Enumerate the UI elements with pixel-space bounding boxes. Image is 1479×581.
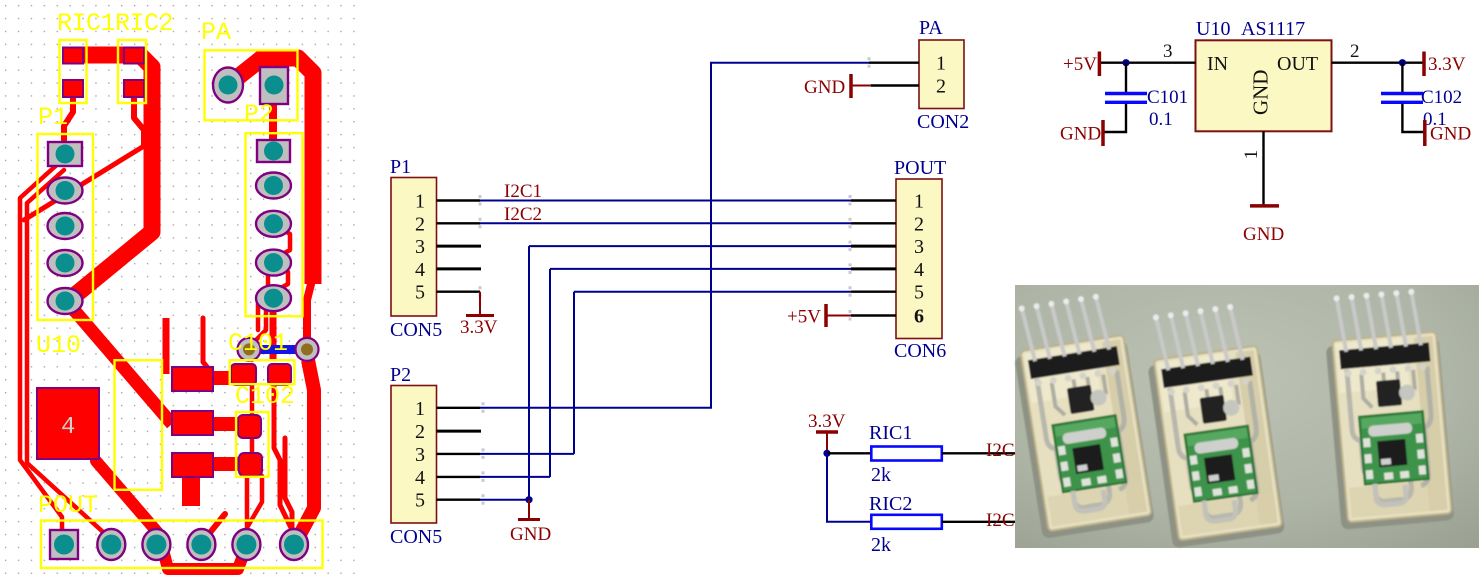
wire: RIC1 to net I2C1 bbox=[942, 452, 1016, 454]
svg-text:GND: GND bbox=[1249, 70, 1273, 116]
power symbol 3.3V (U10 output) bbox=[1422, 52, 1426, 77]
pin stub PA.2 bbox=[871, 84, 919, 86]
svg-text:1: 1 bbox=[415, 191, 425, 213]
junction: OUT node bbox=[1399, 59, 1406, 66]
ground symbol GND (U10 pin1) bbox=[1250, 204, 1279, 208]
svg-text:C101: C101 bbox=[1147, 87, 1188, 108]
svg-text:PA: PA bbox=[201, 18, 231, 47]
capacitor C101 smd pads bbox=[231, 364, 256, 385]
svg-text:GND: GND bbox=[1243, 224, 1284, 245]
ground symbol GND (C102) bbox=[1423, 120, 1427, 146]
capacitor C102 bbox=[1381, 63, 1462, 132]
wire: U10 pin1 GND down bbox=[1262, 131, 1264, 206]
bottom-layer trace between C101 vias bbox=[238, 345, 318, 354]
wire: U10 smd pad C to C102 bottom pad bbox=[210, 457, 243, 471]
wire: vertical riser P2.3 to POUT.5 bbox=[573, 292, 575, 454]
svg-text:RIC1RIC2: RIC1RIC2 bbox=[57, 9, 173, 38]
svg-text:GND: GND bbox=[510, 524, 551, 545]
power symbol +5V (U10 input) bbox=[1098, 52, 1102, 77]
wire: C102 right trace down bbox=[285, 438, 292, 532]
connector P1 pad 5 bbox=[48, 288, 83, 314]
pin stub P2.4 bbox=[437, 476, 481, 478]
U10 smd pad right 2 bbox=[172, 411, 213, 435]
pin stub P1.3 bbox=[437, 245, 482, 248]
svg-text:CON6: CON6 bbox=[894, 340, 946, 362]
svg-text:GND: GND bbox=[1060, 124, 1101, 145]
wire: U10 smd pad A to C101 left pad bbox=[210, 371, 240, 385]
wire: smd pad C stem down bbox=[182, 477, 200, 506]
ground symbol GND at PA.2 bbox=[851, 74, 871, 98]
svg-text:3.3V: 3.3V bbox=[460, 317, 498, 338]
wire: P2.3 to riser bbox=[480, 453, 574, 455]
wire: left twin rail B (to POUT pad2) bbox=[27, 170, 103, 532]
wire: C101 bottom plate to GND bbox=[1103, 104, 1126, 132]
C101 plates bbox=[1105, 92, 1147, 95]
photo module 2 bbox=[1141, 301, 1285, 548]
pin stub P2.3 bbox=[437, 453, 481, 455]
svg-text:2: 2 bbox=[415, 213, 425, 235]
connector P1 pad 1 (square) bbox=[48, 142, 82, 166]
svg-text:1: 1 bbox=[1241, 150, 1262, 160]
wire: U10 pin3 IN bbox=[1126, 62, 1196, 64]
wire: U10 smd pad B to C102 top pad bbox=[210, 417, 242, 431]
wire: thick trace RIC1 pad to vertical rail and down to P1 pad5 bbox=[68, 55, 152, 301]
connector P2 pad 1 (square) bbox=[257, 140, 290, 162]
connector POUT pad 2 bbox=[97, 529, 125, 560]
connector POUT pad 1 (square) bbox=[50, 530, 78, 559]
connector POUT pad 6 bbox=[280, 529, 308, 560]
svg-text:CON5: CON5 bbox=[390, 526, 442, 548]
op-amp U10 AS1117 body bbox=[1196, 18, 1332, 131]
wire: P2.5 to riser bbox=[480, 499, 529, 501]
junction: P2.5 / GND node bbox=[525, 496, 532, 503]
outline POUT bbox=[41, 521, 323, 569]
connector P1 pad 4 bbox=[48, 250, 83, 276]
power symbol 3.3V (pull-ups) bbox=[808, 411, 846, 453]
svg-text:5: 5 bbox=[914, 282, 924, 304]
svg-text:RIC1: RIC1 bbox=[869, 422, 912, 444]
wire: narrow pair below P2 bbox=[203, 318, 213, 374]
junction: 3.3V node bbox=[823, 450, 830, 457]
pin stub P1.5 bbox=[437, 291, 481, 293]
pin stub P1.1 bbox=[437, 199, 481, 201]
wire: junction to 3.3V bar bbox=[1402, 62, 1424, 64]
photo module 1 bbox=[1006, 290, 1154, 539]
pin stub P2.1 bbox=[437, 407, 481, 409]
wire: PA square pad down to P2 pad1 bbox=[269, 100, 277, 145]
connector P2 pad 3 bbox=[256, 211, 291, 237]
wire: C102 bottom plate to GND bbox=[1402, 104, 1424, 132]
outline P2 bbox=[246, 133, 303, 316]
wire: right rail narrowing to C101 via bbox=[307, 280, 312, 349]
wire: POUT.4 horizontal to vertical riser bbox=[550, 268, 851, 270]
svg-text:4: 4 bbox=[415, 259, 425, 281]
pin stub P2.2 bbox=[437, 430, 482, 433]
svg-text:2k: 2k bbox=[871, 534, 891, 556]
svg-text:2: 2 bbox=[415, 421, 425, 443]
outline RIC1 bbox=[60, 40, 87, 103]
wire: P2.4 to riser bbox=[480, 476, 550, 478]
svg-text:U10: U10 bbox=[36, 331, 81, 360]
svg-text:P2: P2 bbox=[244, 100, 274, 129]
ground symbol GND at P2.5 node bbox=[518, 500, 540, 520]
svg-text:3: 3 bbox=[1163, 41, 1173, 62]
wire: trace RIC1 bottom pad down to P1 pad1 bbox=[64, 90, 73, 150]
wire: P1.1 to POUT.1 net I2C1 (blue) bbox=[480, 200, 851, 202]
C102 plates bbox=[1381, 92, 1423, 95]
connector P2 pad 2 bbox=[256, 173, 291, 199]
connector P2 (CON5) bbox=[390, 364, 481, 548]
connector POUT pad 4 bbox=[187, 529, 215, 560]
outline P1 bbox=[38, 134, 94, 320]
svg-text:POUT: POUT bbox=[894, 157, 946, 179]
wire: RIC2 to net I2C2 bbox=[942, 521, 1016, 523]
pin stub P1.2 bbox=[437, 222, 481, 224]
svg-text:GND: GND bbox=[804, 77, 845, 98]
resistor RIC2 smd pads bbox=[124, 48, 144, 64]
svg-text:P1: P1 bbox=[38, 103, 68, 132]
wire: long diagonal RIC2 to left rail bbox=[24, 146, 144, 220]
wire: C102 bottom to POUT pad5 bbox=[248, 476, 262, 526]
svg-text:4: 4 bbox=[914, 259, 924, 281]
svg-text:1: 1 bbox=[914, 191, 924, 213]
svg-text:P1: P1 bbox=[390, 156, 411, 178]
svg-text:4: 4 bbox=[61, 414, 75, 441]
wire: PA thick trace from round pad over to right rail bbox=[228, 58, 313, 284]
pin stub POUT.5 bbox=[851, 291, 896, 293]
svg-text:CON2: CON2 bbox=[917, 111, 969, 133]
wire: P2 pad3 snake down bbox=[258, 224, 290, 330]
outline PA bbox=[205, 50, 298, 120]
svg-text:4: 4 bbox=[415, 467, 425, 489]
U10 smd pad right 3 bbox=[172, 453, 213, 477]
svg-text:1: 1 bbox=[936, 53, 946, 75]
svg-text:U10: U10 bbox=[1196, 18, 1230, 40]
svg-text:I2C2: I2C2 bbox=[504, 204, 542, 225]
svg-text:3.3V: 3.3V bbox=[808, 411, 846, 432]
wire: P2 pad5 down to C102 region bbox=[270, 298, 277, 360]
capacitor C101 bbox=[1103, 63, 1188, 132]
outline C101 bbox=[230, 360, 295, 384]
svg-text:3: 3 bbox=[914, 236, 924, 258]
svg-text:I2C1: I2C1 bbox=[504, 181, 542, 202]
wire: P1.2 to POUT.2 net I2C2 (blue) bbox=[480, 222, 851, 224]
wire: junction down to C101 top plate bbox=[1125, 63, 1127, 92]
U10 smd pad right 1 bbox=[172, 367, 213, 391]
ground symbol GND (C101) bbox=[1101, 120, 1105, 146]
wire: trace near U10 outline down bbox=[163, 318, 170, 374]
wire: vertical riser P2.4 to POUT.4 bbox=[549, 269, 551, 477]
svg-text:PA: PA bbox=[919, 17, 943, 39]
pin stub POUT.3 bbox=[851, 245, 896, 248]
wire: P2.1 to PA.1 long route bbox=[480, 63, 869, 408]
wire end ghost marks bbox=[479, 57, 871, 505]
svg-text:RIC2: RIC2 bbox=[869, 493, 912, 515]
pin stub POUT.4 bbox=[851, 267, 896, 270]
PCB-PADS bbox=[37, 48, 319, 561]
U10 chip body pad (4) bbox=[37, 388, 99, 459]
photo module 3 bbox=[1321, 287, 1454, 530]
wire: diag trace above POUT pad4-5 bbox=[204, 514, 225, 540]
resistor RIC1 bbox=[869, 422, 942, 486]
via C101 right bbox=[296, 338, 319, 361]
wire: POUT.3 horizontal to vertical riser bbox=[529, 245, 851, 247]
wire: +5V bar to junction bbox=[1099, 62, 1126, 64]
svg-text:P2: P2 bbox=[390, 364, 411, 386]
wire: U10 tab pad to POUT pad3 and loop to pad5 bbox=[96, 461, 248, 569]
svg-text:6: 6 bbox=[914, 306, 924, 328]
wire: POUT.5 horizontal to vertical riser bbox=[574, 291, 851, 293]
pin stub POUT.1 bbox=[851, 199, 896, 201]
wire: U10 pin2 OUT bbox=[1332, 62, 1403, 64]
svg-text:5: 5 bbox=[415, 490, 425, 512]
resistor RIC2 bbox=[869, 493, 942, 556]
wire: big diagonal P1 pad5 to U10 smd pad B bbox=[68, 303, 172, 424]
connector POUT pad 3 bbox=[142, 529, 170, 560]
svg-text:+5V: +5V bbox=[1063, 54, 1097, 75]
connector P1 (CON5) bbox=[390, 156, 481, 341]
connector P2 pad 5 bbox=[256, 285, 291, 311]
wire: junction down to C102 top plate bbox=[1401, 63, 1403, 92]
pin stub P2.5 bbox=[437, 499, 481, 501]
svg-text:GND: GND bbox=[1430, 124, 1471, 145]
svg-text:5: 5 bbox=[415, 282, 425, 304]
wire: C101 area down to POUT pad5 bbox=[247, 384, 252, 534]
pin stub POUT.2 bbox=[851, 222, 896, 224]
connector PA round pad bbox=[213, 68, 243, 103]
wire: junction down to RIC2 row bbox=[827, 453, 871, 522]
connector P1 pad 3 bbox=[48, 213, 83, 239]
svg-text:2k: 2k bbox=[871, 464, 891, 486]
svg-text:IN: IN bbox=[1207, 53, 1228, 75]
power symbol 3.3V at P1.5 bbox=[466, 292, 494, 316]
resistor RIC1 smd pads bbox=[63, 48, 83, 64]
svg-text:3.3V: 3.3V bbox=[1428, 54, 1466, 75]
capacitor C102 smd pads bbox=[238, 415, 261, 438]
svg-text:CON5: CON5 bbox=[390, 319, 442, 341]
wire: trace RIC2 bottom pad jog bbox=[134, 90, 144, 146]
svg-text:1: 1 bbox=[415, 398, 425, 420]
wire: vertical riser P2.5/GND to POUT.3 bbox=[528, 246, 530, 500]
svg-text:C102: C102 bbox=[235, 382, 295, 411]
pin stub POUT.6 bbox=[851, 314, 896, 316]
svg-text:AS1117: AS1117 bbox=[1241, 18, 1305, 40]
outline RIC2 bbox=[118, 40, 146, 103]
power symbol +5V at POUT.6 bbox=[826, 304, 851, 327]
via C101 left bbox=[238, 338, 261, 361]
svg-text:+5V: +5V bbox=[787, 307, 821, 328]
PCB-SILK bbox=[36, 9, 323, 568]
wire: junction to RIC1 bbox=[827, 452, 871, 454]
svg-text:2: 2 bbox=[914, 213, 924, 235]
svg-text:3: 3 bbox=[415, 236, 425, 258]
connector POUT pad 5 bbox=[232, 529, 260, 560]
connector PA (CON2) bbox=[869, 17, 969, 133]
photo background bbox=[1015, 285, 1479, 548]
connector PA square pad bbox=[260, 67, 288, 104]
pin stub PA.1 bbox=[869, 62, 919, 64]
svg-text:OUT: OUT bbox=[1277, 53, 1318, 75]
wire: P2 pad4 snake down bbox=[252, 263, 288, 360]
wire: C101 right pad down to POUT pad6 bbox=[274, 385, 294, 534]
svg-text:C102: C102 bbox=[1421, 87, 1462, 108]
PCB-TRACES bbox=[20, 55, 314, 569]
svg-text:C101: C101 bbox=[228, 329, 288, 358]
outline C102 bbox=[236, 412, 268, 477]
svg-text:0.1: 0.1 bbox=[1149, 109, 1173, 130]
connector P2 pad 4 bbox=[256, 250, 291, 276]
svg-text:3: 3 bbox=[415, 444, 425, 466]
connector P1 pad 2 bbox=[48, 178, 83, 204]
svg-text:2: 2 bbox=[936, 76, 946, 98]
svg-text:POUT: POUT bbox=[38, 491, 98, 520]
outline U10 bbox=[115, 360, 163, 490]
wire: right rail below via down to POUT pad6 bbox=[297, 360, 314, 540]
connector POUT (CON6) bbox=[851, 157, 946, 362]
svg-text:2: 2 bbox=[1350, 41, 1360, 62]
wire: left twin rail A (P1 pad1 down to POUT pad1) bbox=[20, 162, 62, 532]
junction: IN node bbox=[1122, 59, 1129, 66]
pin stub P1.4 bbox=[437, 267, 482, 270]
